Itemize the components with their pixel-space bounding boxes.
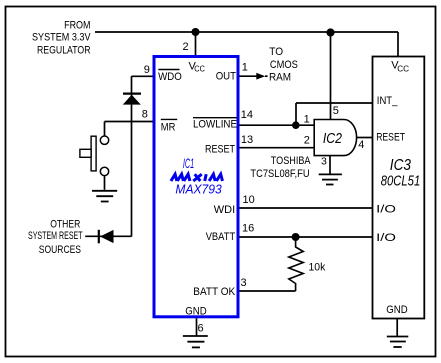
svg-text:1: 1 (304, 113, 310, 125)
svg-text:IC1: IC1 (183, 155, 194, 171)
IC2 TOSHIBA part label (250, 155, 311, 180)
svg-text:SYSTEM 3.3V: SYSTEM 3.3V (32, 32, 91, 44)
svg-text:OTHER: OTHER (50, 219, 80, 231)
junction: supply rail to IC2 VCC (326, 28, 334, 36)
wire: OUT pin 1 to CMOS RAM arrow (239, 73, 267, 80)
IC3 80CL51 microcontroller box (373, 57, 425, 319)
svg-text:TC7SL08F,FU: TC7SL08F,FU (250, 168, 309, 180)
wire: supply rail down to IC1 VCC pin 2 (195, 32, 197, 55)
svg-text:3: 3 (321, 156, 327, 168)
wire: supply rail to IC3 VCC corner (397, 32, 399, 57)
svg-text:TO: TO (269, 46, 283, 58)
ground (push-button) (92, 191, 117, 202)
svg-text:9: 9 (144, 64, 150, 76)
wire: IC2 output pin 4 to IC3 RESET (357, 137, 373, 139)
wire: VBATT pin 16 to IC3 I/O (239, 236, 372, 238)
svg-text:SOURCES: SOURCES (39, 244, 81, 256)
wire: IC2 pin 3 to ground (329, 156, 331, 175)
svg-text:TOSHIBA: TOSHIBA (271, 155, 311, 167)
svg-text:2: 2 (183, 41, 189, 53)
svg-text:IC3: IC3 (390, 157, 412, 174)
svg-text:CMOS: CMOS (270, 59, 298, 71)
ground (IC2) (319, 174, 342, 184)
svg-text:I/O: I/O (376, 232, 396, 244)
wire: LOWLINE branch to IC3 INT pin (296, 102, 373, 104)
svg-text:4: 4 (358, 139, 364, 151)
svg-text:80CL51: 80CL51 (381, 173, 420, 189)
node: TO CMOS RAM label (269, 46, 298, 83)
wire: branch up from junction (295, 103, 297, 125)
svg-text:16: 16 (242, 222, 254, 234)
ground (IC3) (387, 337, 409, 348)
wire: other reset sources to diode (85, 235, 131, 237)
svg-text:WDI: WDI (214, 204, 235, 216)
wire: left vertical from WDO down to reset diode (131, 76, 133, 236)
diode D2 (other reset sources) (99, 230, 114, 244)
svg-text:GND: GND (386, 304, 407, 316)
svg-text:CC: CC (194, 63, 205, 73)
wire: RESET pin 13 to IC2 input 2 (239, 147, 314, 149)
svg-text:RESET: RESET (376, 132, 405, 144)
svg-text:IC2: IC2 (323, 130, 343, 147)
svg-text:RAM: RAM (269, 71, 291, 83)
MAXIM logo (171, 174, 223, 181)
wire: IC1 GND pin 6 stem (196, 318, 198, 336)
junction: supply rail to IC1 VCC (192, 28, 200, 36)
ground (IC1 pin 6) (183, 336, 208, 347)
svg-text:RESET: RESET (205, 144, 235, 156)
wire: WDI pin 10 to IC3 I/O (239, 207, 372, 209)
push-button switch S1 (80, 122, 109, 190)
svg-text:3: 3 (241, 277, 247, 289)
junction: VBATT to resistor (292, 233, 300, 241)
svg-text:SYSTEM RESET: SYSTEM RESET (28, 230, 83, 242)
svg-text:CC: CC (397, 63, 409, 73)
svg-text:BATT OK: BATT OK (193, 286, 236, 298)
svg-text:REGULATOR: REGULATOR (37, 45, 91, 57)
IC1 VCC label (189, 60, 206, 73)
wire: supply rail down to IC2 pin 5 (330, 32, 332, 120)
IC1 MR label with overline (161, 119, 177, 133)
svg-text:10k: 10k (309, 261, 326, 273)
IC1 LOWLINE label with overline (193, 118, 237, 131)
svg-text:INT_: INT_ (377, 95, 398, 107)
wire: WDO pin 9 to diode line (132, 75, 153, 77)
svg-text:I/O: I/O (376, 204, 396, 216)
svg-text:GND: GND (185, 305, 207, 317)
wire: 3.3V supply rail horizontal (95, 31, 398, 33)
node: OTHER SYSTEM RESET SOURCES label (28, 219, 83, 256)
wire: BATT OK pin 3 to resistor bottom (239, 290, 295, 292)
svg-text:2: 2 (304, 135, 310, 147)
node: FROM SYSTEM 3.3V REGULATOR supply label (32, 20, 91, 57)
and-gate IC2 (314, 120, 356, 156)
IC1 MAX793 supervisor box (154, 57, 238, 317)
svg-text:5: 5 (333, 105, 339, 117)
svg-text:MAX793: MAX793 (175, 181, 222, 196)
svg-text:LOWLINE: LOWLINE (193, 119, 237, 131)
wire: LOWLINE pin 14 to IC2 input 1 (239, 124, 314, 126)
junction: LOWLINE to INT branch (292, 121, 300, 129)
svg-text:VBATT: VBATT (206, 231, 236, 243)
svg-text:14: 14 (241, 109, 253, 121)
wire: IC3 GND stem (396, 319, 398, 337)
svg-text:10: 10 (243, 194, 255, 206)
resistor R1 10k (289, 237, 303, 291)
wire: MR pin 8 to push-button (105, 121, 153, 123)
svg-text:OUT: OUT (216, 71, 237, 83)
svg-text:MR: MR (161, 122, 176, 134)
svg-text:WDO: WDO (158, 71, 182, 83)
diode D1 (WDO to MR) (123, 94, 141, 105)
svg-text:FROM: FROM (64, 20, 90, 32)
svg-text:6: 6 (198, 323, 204, 335)
IC1 WDO label with overline (158, 70, 182, 84)
IC3 VCC label (391, 60, 409, 74)
svg-text:13: 13 (241, 134, 253, 146)
svg-text:8: 8 (142, 108, 148, 120)
svg-text:1: 1 (242, 61, 248, 73)
